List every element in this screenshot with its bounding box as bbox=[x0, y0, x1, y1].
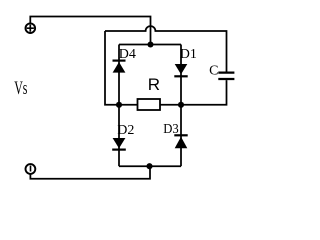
junction dot right-mid node bbox=[178, 102, 184, 108]
svg-text:D1: D1 bbox=[180, 47, 197, 62]
wire left-mid node to resistor bbox=[119, 104, 138, 106]
diode D1 (triangle pointing down, bar below) bbox=[174, 64, 187, 76]
diode D3 (bar on top, triangle pointing up) bbox=[174, 135, 187, 148]
bridge left upper rail bbox=[118, 45, 120, 105]
svg-text:R: R bbox=[148, 75, 160, 94]
wire left outer vertical bbox=[105, 31, 119, 105]
bridge right upper rail bbox=[180, 45, 182, 105]
svg-text:D4: D4 bbox=[119, 47, 136, 62]
bridge top rail bbox=[119, 44, 181, 46]
source terminal + (positive) bbox=[26, 23, 36, 33]
wire bottom node to Vs- terminal bbox=[30, 166, 150, 179]
source terminal - (negative) bbox=[26, 164, 36, 174]
svg-text:D3: D3 bbox=[163, 122, 179, 137]
svg-text:C: C bbox=[209, 63, 218, 78]
wire resistor to right-mid node bbox=[160, 104, 181, 106]
capacitor C plates bbox=[218, 71, 234, 73]
wire Vs+ to top node bbox=[30, 17, 150, 45]
diode D4 (bar and triangle pointing up) bbox=[113, 61, 126, 73]
bridge bottom rail bbox=[119, 165, 181, 167]
junction dot left-mid node bbox=[116, 102, 122, 108]
junction dot bottom node bbox=[146, 163, 152, 169]
junction dot top node bbox=[147, 41, 153, 47]
bridge left lower rail bbox=[118, 105, 120, 166]
wire capacitor bottom to right-mid node bbox=[181, 80, 227, 105]
svg-text:Vs: Vs bbox=[14, 79, 27, 99]
svg-text:D2: D2 bbox=[117, 123, 134, 138]
wire left-mid node to capacitor top (with hop over vertical wire) bbox=[105, 26, 227, 71]
resistor R box bbox=[138, 99, 161, 110]
bridge right lower rail bbox=[180, 105, 182, 166]
diode D2 (triangle pointing down, bar below) bbox=[112, 138, 126, 150]
